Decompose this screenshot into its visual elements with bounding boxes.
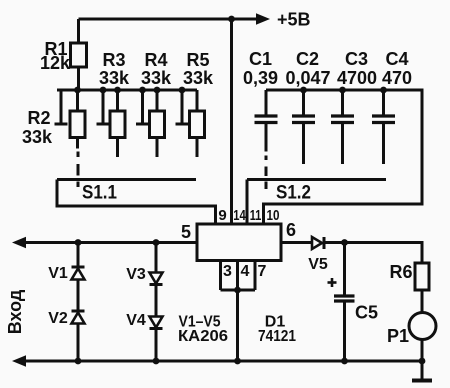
- svg-text:33k: 33k: [183, 68, 214, 88]
- label C4 470: [382, 49, 412, 88]
- node: C2 top junction: [300, 87, 307, 94]
- label C3 4700: [337, 49, 377, 88]
- node: P1 bottom junction: [419, 358, 426, 365]
- svg-text:9: 9: [218, 207, 226, 224]
- node: pin 3-4-7 down wire junction: [234, 358, 241, 365]
- diode V3: [150, 243, 163, 317]
- meter P1: [409, 313, 436, 340]
- capacitor C3: [331, 90, 354, 164]
- switch S1.1 contact stub 1: [55, 90, 68, 124]
- arrow: input bottom left: [12, 355, 26, 367]
- svg-text:R3: R3: [102, 50, 125, 70]
- svg-text:S1.2: S1.2: [276, 183, 311, 204]
- wire: pin 6 to V5: [281, 241, 312, 244]
- svg-text:C3: C3: [345, 49, 368, 69]
- diode V5: [312, 237, 324, 249]
- svg-text:R5: R5: [186, 50, 209, 70]
- switch S1.1 contact stub 3: [136, 90, 149, 124]
- wire: pins 3-4-7 tie bar: [221, 289, 256, 292]
- label R5 33k: [183, 50, 214, 88]
- svg-text:КА206: КА206: [178, 328, 228, 345]
- label R3 33k: [99, 50, 130, 88]
- svg-text:R2: R2: [27, 108, 50, 128]
- label D1 74121: [258, 314, 296, 346]
- svg-text:0,047: 0,047: [285, 68, 330, 88]
- switch S1.1 arm: [57, 178, 196, 181]
- resistor R4: [150, 90, 165, 157]
- wire: S1.1 arm to pin 9: [57, 180, 216, 225]
- resistor R1: [71, 19, 87, 90]
- svg-text:33k: 33k: [141, 68, 172, 88]
- label R2 33k: [22, 108, 53, 147]
- svg-text:11: 11: [250, 207, 262, 224]
- node: R3 top junction: [114, 87, 121, 94]
- C5 polarity plus sign: [328, 278, 337, 287]
- svg-text:33k: 33k: [22, 127, 53, 147]
- node: V1 top junction: [75, 239, 82, 246]
- node: pins 3-4-7 junction: [234, 287, 241, 294]
- resistor R6: [415, 263, 429, 313]
- op-amp/one-shot chip D1 body: [197, 224, 281, 261]
- capacitor C5: [334, 243, 355, 362]
- svg-text:14: 14: [233, 207, 246, 224]
- svg-text:74121: 74121: [258, 328, 296, 345]
- svg-text:3: 3: [223, 263, 232, 280]
- svg-text:V4: V4: [126, 312, 146, 329]
- arrow: input top left: [12, 237, 26, 249]
- node: R4 stub junction: [139, 87, 146, 94]
- svg-text:4700: 4700: [337, 68, 377, 88]
- wire: pin 5 input line: [24, 241, 197, 244]
- diode V4: [150, 317, 163, 362]
- diode V2: [72, 311, 85, 361]
- wire: P1 to ground rail: [421, 340, 424, 362]
- node: R5 stub junction: [179, 87, 186, 94]
- svg-text:5: 5: [181, 222, 191, 242]
- svg-text:P1: P1: [387, 326, 409, 346]
- svg-text:R6: R6: [389, 262, 412, 282]
- resistor R2: [70, 90, 85, 149]
- wire: capacitor top bus, right rail, pin 10 connection: [264, 90, 423, 224]
- svg-text:+5В: +5В: [277, 10, 311, 30]
- resistor R3: [110, 90, 125, 157]
- svg-text:C1: C1: [249, 49, 272, 69]
- wire: V5 to R6 corner: [326, 243, 423, 264]
- node: rail / pin14 junction: [228, 16, 235, 23]
- node: C3 top junction: [339, 87, 346, 94]
- wire: pin 14 to +5V rail: [230, 19, 233, 224]
- svg-text:V3: V3: [126, 266, 146, 283]
- svg-text:C5: C5: [355, 303, 378, 323]
- node: V2 bottom junction: [75, 358, 82, 365]
- svg-text:6: 6: [286, 220, 296, 240]
- svg-text:C4: C4: [385, 49, 408, 69]
- svg-text:33k: 33k: [99, 68, 130, 88]
- capacitor C2: [292, 90, 315, 164]
- svg-text:7: 7: [258, 263, 267, 280]
- svg-text:4: 4: [241, 263, 250, 280]
- node: V5 / C5 junction: [341, 239, 348, 246]
- node: C4 top junction: [380, 87, 387, 94]
- svg-text:Вход: Вход: [5, 289, 25, 334]
- capacitor C4: [372, 90, 395, 164]
- node: V4 bottom junction: [153, 358, 160, 365]
- label V1-V5 КА206: [178, 314, 228, 346]
- wire: pin 7: [254, 261, 257, 291]
- wire: resistor top bus: [57, 89, 197, 92]
- switch S1.2 arm: [247, 178, 386, 181]
- node: R3 stub junction: [100, 87, 107, 94]
- node: V3 top junction: [153, 239, 160, 246]
- switch S1.2 wiper dashes at C1: [265, 156, 268, 190]
- diode V1: [72, 243, 85, 310]
- svg-text:R4: R4: [144, 50, 167, 70]
- svg-text:10: 10: [267, 207, 280, 224]
- switch S1.1 contact stub 2: [97, 90, 110, 124]
- node: R4 top junction: [154, 87, 161, 94]
- svg-text:V5: V5: [308, 256, 328, 273]
- label C1 0,39: [243, 49, 278, 88]
- svg-text:470: 470: [382, 68, 412, 88]
- wire: pin 3: [219, 261, 222, 291]
- label R4 33k: [141, 50, 172, 88]
- wire: pins 3-4-7 to ground rail: [236, 290, 239, 361]
- svg-text:V1: V1: [48, 265, 68, 282]
- label C2 0,047: [285, 49, 330, 88]
- switch S1.1 wiper dashes at R2: [77, 152, 80, 188]
- wire: S1.2 arm to pin 11: [246, 180, 249, 225]
- svg-text:S1.1: S1.1: [82, 183, 117, 204]
- node: R1/R2 junction: [74, 87, 81, 94]
- svg-text:0,39: 0,39: [243, 68, 278, 88]
- capacitor C1: [255, 90, 278, 152]
- wire: +5V rail: [79, 18, 259, 21]
- arrow: +5V direction: [256, 13, 270, 25]
- wire: bottom ground rail: [24, 360, 422, 363]
- svg-text:C2: C2: [296, 49, 319, 69]
- svg-text:12k: 12k: [40, 53, 71, 73]
- svg-text:V2: V2: [48, 310, 68, 327]
- node: C5 bottom junction: [341, 358, 348, 365]
- ground symbol: [412, 361, 432, 381]
- label R1 12k: [40, 39, 71, 73]
- resistor R5: [190, 90, 205, 157]
- wire: pin 4: [236, 261, 239, 291]
- switch S1.1 contact stub 4: [176, 90, 189, 124]
